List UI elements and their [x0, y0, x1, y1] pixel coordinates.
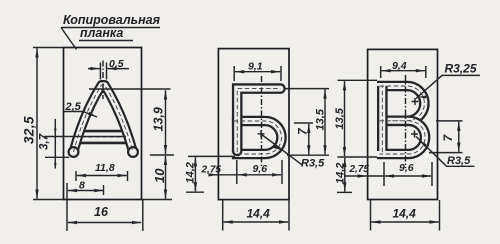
svg-text:2,75: 2,75 — [349, 164, 370, 175]
dim 8 — [103, 185, 105, 195]
letter B stencil — [232, 89, 282, 154]
svg-text:11,8: 11,8 — [95, 162, 115, 174]
svg-text:14,4: 14,4 — [393, 207, 417, 221]
dim 14,4 — [223, 200, 289, 230]
dim 14,4 — [371, 200, 440, 231]
svg-text:9,6: 9,6 — [253, 163, 268, 175]
centerline of A — [102, 61, 104, 100]
dim 13,5 right — [286, 89, 330, 156]
extension lines left and right of box — [33, 48, 172, 200]
GROUP B (Б) — [185, 49, 330, 231]
stroke axis centerlines of B — [234, 89, 282, 154]
stroke axis centerlines of A — [74, 85, 134, 152]
svg-text:13,5: 13,5 — [315, 108, 327, 130]
dim 2,75 and 9,6 chained — [384, 162, 432, 186]
dim 14,2 left — [186, 156, 235, 192]
svg-text:8: 8 — [79, 180, 85, 192]
letter V stencil — [377, 86, 425, 154]
dim 13,9 — [89, 89, 174, 155]
svg-text:9,6: 9,6 — [399, 162, 414, 174]
R3,5 leader right — [416, 137, 475, 167]
legs of A — [74, 85, 134, 152]
svg-text:R3,25: R3,25 — [445, 62, 477, 76]
GROUP A — [22, 13, 175, 231]
dim 7 right — [429, 121, 463, 153]
svg-text:0,5: 0,5 — [109, 58, 124, 70]
center mark lower — [411, 131, 418, 138]
svg-text:Копировальная: Копировальная — [63, 13, 161, 27]
lower bowl of V — [377, 121, 425, 154]
center mark upper — [412, 98, 419, 105]
dim 7 right — [294, 122, 313, 124]
svg-text:9,4: 9,4 — [392, 60, 407, 72]
dim 0,5 — [100, 63, 106, 80]
dim 2,75 and 9,6 chained — [237, 160, 282, 184]
svg-text:32,5: 32,5 — [22, 116, 37, 144]
stroke axis centerlines of V — [380, 86, 426, 154]
dim 13,5 left — [338, 80, 378, 157]
svg-text:3,7: 3,7 — [39, 133, 51, 150]
dim 32,5 — [36, 48, 38, 198]
GROUP V (В) — [334, 49, 480, 230]
R3,5 center mark — [258, 130, 265, 137]
svg-text:14,2: 14,2 — [185, 162, 197, 183]
svg-text:14,4: 14,4 — [247, 207, 271, 221]
template box — [368, 49, 438, 199]
svg-text:16: 16 — [94, 205, 109, 219]
svg-text:2,75: 2,75 — [201, 165, 222, 176]
leader to box — [61, 28, 77, 50]
template box — [64, 48, 142, 200]
svg-text:14,2: 14,2 — [335, 163, 347, 184]
letter A stencil — [68, 85, 140, 158]
svg-text:R3,5: R3,5 — [447, 155, 471, 167]
R3,5 leader — [261, 134, 302, 165]
upper bowl of V — [377, 86, 424, 121]
dim 11,8 — [76, 171, 128, 181]
svg-text:9,1: 9,1 — [248, 61, 263, 73]
dim 9,1 — [234, 66, 281, 81]
template box — [218, 49, 289, 200]
svg-text:13,9: 13,9 — [152, 107, 166, 131]
dim 3,7 — [44, 137, 126, 158]
svg-text:13,5: 13,5 — [334, 107, 346, 129]
bowl of B — [232, 121, 282, 154]
centerline — [261, 76, 263, 168]
dim 10 — [165, 156, 167, 199]
svg-text:R3,5: R3,5 — [301, 158, 325, 170]
centerline — [405, 75, 407, 168]
dim 9,4 — [381, 66, 426, 78]
stem of V — [377, 86, 388, 149]
foot holes — [68, 146, 80, 158]
label underline — [61, 28, 160, 41]
dim 14,2 left — [337, 191, 352, 193]
crossbar of A — [81, 130, 127, 145]
svg-text:10: 10 — [152, 168, 167, 183]
stem and top bar of B — [237, 89, 280, 151]
dim 16 — [67, 183, 143, 231]
